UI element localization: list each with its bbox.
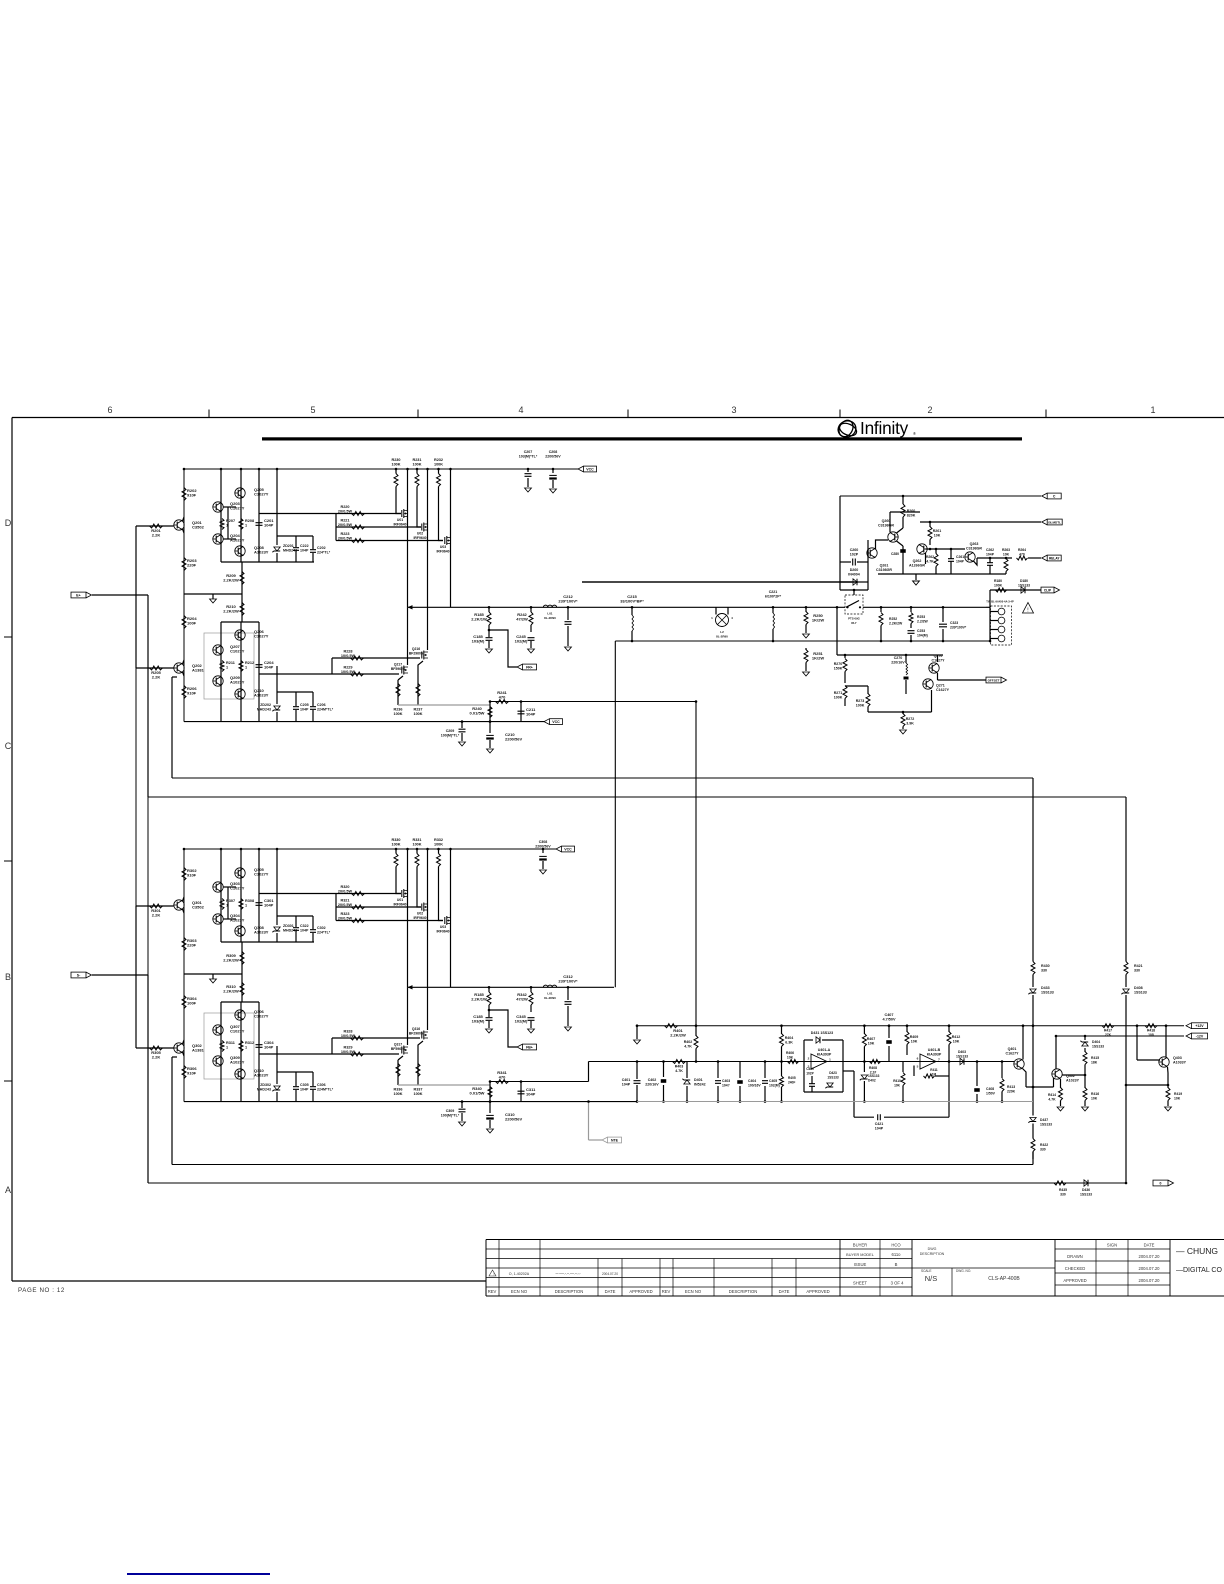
svg-text:R417: R417 <box>1104 1029 1112 1033</box>
wire <box>867 540 869 590</box>
wire <box>241 562 243 622</box>
svg-text:1SS133: 1SS133 <box>956 1055 968 1059</box>
cluster2 gray box <box>204 1013 254 1079</box>
svg-text:MHD243: MHD243 <box>257 1088 271 1092</box>
resistor R185 <box>488 987 490 992</box>
svg-text:224*TL*: 224*TL* <box>317 551 331 555</box>
svg-text:240F: 240F <box>788 1081 795 1085</box>
svg-text:L01: L01 <box>547 611 553 615</box>
resistor R408 <box>870 1060 881 1064</box>
resistor R205 <box>150 666 163 670</box>
transistor Q306 <box>235 1010 245 1020</box>
capacitor C202 <box>310 550 316 553</box>
svg-text:C403: C403 <box>722 1079 730 1083</box>
resistor R307 <box>220 899 224 910</box>
svg-text:R409: R409 <box>910 1035 919 1039</box>
svg-text:A1023Y: A1023Y <box>254 1073 269 1078</box>
svg-text:—DIGITAL CO: —DIGITAL CO <box>1176 1267 1222 1274</box>
svg-text:1: 1 <box>226 904 228 908</box>
svg-text:2.2/2W: 2.2/2W <box>917 620 929 624</box>
svg-text:220/16V: 220/16V <box>645 1083 659 1087</box>
svg-text:APPROVED: APPROVED <box>1063 1278 1086 1283</box>
svg-text:104P: 104P <box>300 708 309 712</box>
svg-text:1: 1 <box>226 524 228 528</box>
svg-text:20/0.5W: 20/0.5W <box>338 890 353 894</box>
svg-text:A: A <box>5 1185 11 1195</box>
svg-text:C407: C407 <box>884 1013 893 1017</box>
svg-text:IRF9640: IRF9640 <box>393 523 406 527</box>
svg-text:IRF9640: IRF9640 <box>413 536 426 540</box>
svg-text:Q271: Q271 <box>936 684 945 688</box>
svg-text:Q262: Q262 <box>913 559 922 563</box>
resistor R311 <box>220 1041 224 1052</box>
svg-text:A1023Y: A1023Y <box>230 918 245 923</box>
wire <box>184 593 242 595</box>
svg-text:R230: R230 <box>391 458 400 462</box>
mosfet Q217 <box>407 607 409 665</box>
connector flag NTE <box>602 1137 608 1143</box>
capacitor C301 <box>256 903 263 906</box>
wire <box>220 622 222 722</box>
svg-text:A1023Y: A1023Y <box>230 538 245 543</box>
svg-text:104P: 104P <box>526 712 536 717</box>
zone tick <box>417 410 419 418</box>
transistor Q402 <box>1052 1069 1062 1079</box>
resistor R212 <box>239 661 243 672</box>
resistor R329 <box>351 1052 364 1056</box>
capacitor C222 <box>293 548 299 551</box>
svg-text:A1381: A1381 <box>192 1048 205 1053</box>
svg-text:100F: 100F <box>187 621 197 626</box>
svg-text:C1027Y: C1027Y <box>254 1014 269 1019</box>
svg-text:R406: R406 <box>786 1051 794 1055</box>
svg-text:C322: C322 <box>300 924 309 928</box>
resistor R253 <box>910 607 912 612</box>
resistor R261 <box>929 522 931 527</box>
svg-text:C1027Y: C1027Y <box>230 886 245 891</box>
wire <box>136 667 174 669</box>
svg-text:T/R BL-9A450-4A-3-4P: T/R BL-9A450-4A-3-4P <box>986 600 1014 604</box>
svg-text:ZD301: ZD301 <box>283 924 294 928</box>
wire supply rail <box>184 468 578 470</box>
zener diode D401 <box>686 1062 688 1079</box>
svg-text:U401-A: U401-A <box>818 1048 831 1052</box>
svg-text:C221: C221 <box>769 590 778 594</box>
transistor Q308 <box>235 926 245 936</box>
resistor R302 <box>182 868 186 881</box>
svg-text:D436: D436 <box>1082 1188 1090 1192</box>
svg-text:6/100*2P*: 6/100*2P* <box>765 595 782 599</box>
svg-text:C421: C421 <box>875 1122 884 1126</box>
svg-text:R418: R418 <box>1147 1029 1155 1033</box>
svg-text:R416: R416 <box>1091 1092 1099 1096</box>
svg-text:C270: C270 <box>894 656 903 660</box>
resistor R211 <box>220 661 224 672</box>
svg-text:10K: 10K <box>1003 553 1010 557</box>
resistor R331 <box>415 854 419 867</box>
wire gate row 1 <box>259 513 401 515</box>
transistor Q203 <box>213 502 223 512</box>
svg-text:R407: R407 <box>867 1037 876 1041</box>
resistor R341 <box>496 1080 509 1084</box>
resistor R203 <box>182 558 186 571</box>
wire <box>863 606 986 608</box>
svg-text:104P: 104P <box>986 553 995 557</box>
svg-text:C1027Y: C1027Y <box>230 1029 245 1034</box>
transistor Q201 <box>174 520 184 530</box>
svg-text:C323: C323 <box>950 621 958 625</box>
svg-text:6.3K: 6.3K <box>785 1041 793 1045</box>
svg-text:C222: C222 <box>300 544 309 548</box>
wire <box>277 915 313 917</box>
resistor R221 <box>352 525 365 529</box>
wire <box>221 561 314 563</box>
capacitor C270 <box>905 655 907 663</box>
wire output rail <box>408 986 615 988</box>
mosfet Q313 <box>402 889 404 898</box>
resistor R250 <box>805 607 807 612</box>
svg-text:1: 1 <box>245 1046 247 1050</box>
wire <box>220 1002 222 1102</box>
svg-text:U03: U03 <box>440 925 446 929</box>
resistor R209 <box>240 572 244 585</box>
svg-text:470: 470 <box>1019 553 1025 557</box>
svg-text:R236: R236 <box>393 708 402 712</box>
resistor R232 <box>437 474 441 487</box>
transistor Q263 <box>965 552 975 562</box>
svg-text:2.2K/2W: 2.2K/2W <box>223 958 239 963</box>
zener diode ZD201 <box>274 547 280 551</box>
svg-text:330: 330 <box>1134 969 1140 973</box>
wire sense bus <box>398 1084 490 1086</box>
wire <box>836 607 838 655</box>
svg-text:Q217: Q217 <box>394 663 402 667</box>
resistor R332 <box>437 854 441 867</box>
svg-text:R408: R408 <box>869 1066 877 1070</box>
wire analog ground bus <box>637 1101 1033 1103</box>
svg-text:R212: R212 <box>245 661 254 665</box>
transistor Q303 <box>213 882 223 892</box>
svg-text:0: 0 <box>1160 1181 1162 1185</box>
svg-text:R307: R307 <box>226 899 235 903</box>
capacitor C405 <box>764 1062 766 1079</box>
svg-text:2004.07.20: 2004.07.20 <box>1139 1266 1161 1271</box>
svg-text:IN4004: IN4004 <box>848 573 860 577</box>
svg-text:1SS133: 1SS133 <box>827 1076 839 1080</box>
wire bus A2 <box>172 1164 1033 1166</box>
zener diode D404 <box>1084 1036 1086 1040</box>
resistor R405 <box>781 1062 783 1077</box>
svg-text:R419: R419 <box>1174 1092 1182 1096</box>
svg-text:C260: C260 <box>850 548 859 552</box>
svg-text:R228: R228 <box>343 650 352 654</box>
svg-text:2.2K: 2.2K <box>152 1055 161 1060</box>
svg-text:B: B <box>895 1262 898 1267</box>
resistor R251 <box>805 648 807 650</box>
wire <box>335 514 337 541</box>
svg-text:R252: R252 <box>889 617 897 621</box>
svg-text:C308: C308 <box>539 840 548 844</box>
resistor R342 <box>530 987 532 992</box>
svg-text:6: 6 <box>107 405 112 415</box>
svg-text:2004.07.20: 2004.07.20 <box>1139 1254 1161 1259</box>
wire <box>295 941 297 943</box>
svg-text:C405: C405 <box>769 1079 777 1083</box>
svg-text:100K: 100K <box>413 712 422 716</box>
wire feedback vertical <box>614 641 616 987</box>
connector flag S- <box>71 972 86 978</box>
wire BLMDTL <box>920 521 1041 523</box>
svg-text:2.2K: 2.2K <box>152 913 161 918</box>
svg-text:1: 1 <box>245 666 247 670</box>
svg-text:104(M): 104(M) <box>917 634 928 638</box>
resistor R229 <box>351 672 364 676</box>
svg-text:U02: U02 <box>417 532 423 536</box>
svg-text:2: 2 <box>927 405 932 415</box>
svg-text:BUYER: BUYER <box>853 1243 867 1248</box>
capacitor C302 <box>310 930 316 933</box>
svg-text:A1023Y: A1023Y <box>254 550 269 555</box>
svg-text:*** *****-*-**-****-**-*-*: *** *****-*-**-****-**-*-* <box>555 1272 580 1276</box>
svg-text:R410: R410 <box>893 1079 901 1083</box>
svg-text:D433: D433 <box>1041 986 1050 990</box>
svg-text:C208: C208 <box>549 450 558 454</box>
diode D180 <box>1021 587 1025 593</box>
zener diode ZD302 <box>274 1086 280 1090</box>
svg-text:R332: R332 <box>434 838 443 842</box>
svg-text:R207: R207 <box>226 519 235 523</box>
resistor R413 <box>1001 1062 1003 1079</box>
resistor R237 <box>417 670 419 705</box>
capacitor C212 <box>567 607 569 620</box>
svg-text:B: B <box>5 972 11 982</box>
svg-text:VCC: VCC <box>586 467 594 471</box>
svg-text:150K: 150K <box>834 667 843 671</box>
capacitor C306 <box>310 1087 316 1090</box>
wire <box>1028 557 1041 559</box>
svg-text:100(M)*TL*: 100(M)*TL* <box>441 734 460 738</box>
svg-text:1: 1 <box>1150 405 1155 415</box>
mosfet Q316 <box>427 987 429 1030</box>
svg-text:SIGN: SIGN <box>1107 1243 1117 1248</box>
svg-text:1SS133: 1SS133 <box>1018 584 1030 588</box>
capacitor C210 <box>489 722 491 733</box>
resistor R310 <box>240 983 244 996</box>
svg-text:C309: C309 <box>446 1109 455 1113</box>
wire supply rail <box>184 848 556 850</box>
svg-text:C3198GR: C3198GR <box>878 524 894 528</box>
svg-text:R232: R232 <box>434 458 443 462</box>
resistor R403 <box>673 1060 686 1064</box>
wire sense vertical <box>695 702 697 1026</box>
svg-text:R435: R435 <box>1059 1188 1067 1192</box>
connector flag RELAY <box>1042 555 1048 561</box>
svg-text:U01: U01 <box>397 898 403 902</box>
svg-text:Q261: Q261 <box>880 564 889 568</box>
svg-text:DWG. NO.: DWG. NO. <box>956 1269 971 1273</box>
resistor R231 <box>415 474 419 487</box>
svg-text:104P: 104P <box>300 929 309 933</box>
svg-text:R311: R311 <box>226 1041 235 1045</box>
svg-text:R231: R231 <box>412 458 421 462</box>
connector flag FB+ <box>517 1044 523 1050</box>
svg-text:C206: C206 <box>317 703 326 707</box>
resistor R417 <box>1102 1024 1114 1028</box>
resistor R236 <box>397 680 399 705</box>
resistor R336 <box>397 1060 399 1085</box>
capacitor C323 <box>942 607 944 622</box>
svg-text:2.2K/2W: 2.2K/2W <box>223 578 239 583</box>
transistor Q210 <box>235 689 245 699</box>
svg-text:10K: 10K <box>934 534 941 538</box>
svg-text:N/S: N/S <box>925 1274 938 1283</box>
svg-text:220K: 220K <box>1007 1090 1016 1094</box>
svg-text:2.2K: 2.2K <box>152 533 161 538</box>
svg-text:10K: 10K <box>911 1040 918 1044</box>
wire relay drive <box>977 557 1012 559</box>
connector flag BLMDTL <box>1042 519 1048 525</box>
zener diode D408 <box>1125 975 1127 988</box>
svg-text:R261: R261 <box>933 529 942 533</box>
svg-text:A1023Y: A1023Y <box>1066 1079 1080 1083</box>
resistor R412 <box>948 1026 950 1032</box>
svg-text:IN5242: IN5242 <box>694 1083 706 1087</box>
svg-text:C402: C402 <box>648 1078 657 1082</box>
resistor R328 <box>351 1036 364 1040</box>
zone tick <box>839 410 841 418</box>
wire offset <box>938 679 987 681</box>
svg-text:Q317: Q317 <box>394 1043 402 1047</box>
svg-text:DRAWN: DRAWN <box>1067 1254 1083 1259</box>
svg-text:47/2W: 47/2W <box>516 997 528 1002</box>
svg-text:104P: 104P <box>300 1088 309 1092</box>
inductor L201 <box>543 605 556 607</box>
resistor R321 <box>352 905 365 909</box>
svg-text:R328: R328 <box>343 1030 352 1034</box>
svg-text:DESCRIPTION: DESCRIPTION <box>729 1289 758 1294</box>
resistor R312 <box>239 1041 243 1052</box>
svg-text:1SS133: 1SS133 <box>1134 991 1147 995</box>
svg-text:ZD202: ZD202 <box>260 703 271 707</box>
svg-text:D408: D408 <box>1134 986 1143 990</box>
svg-text:100K: 100K <box>856 704 865 708</box>
svg-text:PTS-09G: PTS-09G <box>848 617 860 621</box>
svg-text:FB+: FB+ <box>526 1045 533 1049</box>
svg-text:104P: 104P <box>264 1045 274 1050</box>
wire left vertical <box>183 469 185 722</box>
svg-text:224M*TL*: 224M*TL* <box>317 1088 334 1092</box>
resistor R337 <box>417 1050 419 1085</box>
svg-text:1: 1 <box>226 666 228 670</box>
transistor Q206 <box>235 630 245 640</box>
transistor Q271 <box>923 679 933 689</box>
svg-text:470: 470 <box>499 1075 506 1080</box>
transistor Q403 <box>1159 1057 1169 1067</box>
mosfet Q317 <box>407 987 409 1045</box>
transistor Q302 <box>174 1043 184 1053</box>
svg-text:104P: 104P <box>526 1092 536 1097</box>
wire bus B <box>148 796 1126 798</box>
svg-text:C1627Y: C1627Y <box>932 659 946 663</box>
power flag -12V <box>1186 1033 1192 1039</box>
svg-text:ZD302: ZD302 <box>260 1083 271 1087</box>
svg-text:ECN NO: ECN NO <box>511 1289 528 1294</box>
svg-text:1: 1 <box>226 1046 228 1050</box>
wire gate row 5 <box>259 673 399 675</box>
wire <box>1136 1026 1138 1060</box>
svg-text:R208: R208 <box>245 519 254 523</box>
svg-text:910F: 910F <box>187 873 197 878</box>
svg-text:C1027Y: C1027Y <box>254 634 269 639</box>
wire protection bus <box>878 573 1006 575</box>
capacitor C215 <box>631 607 633 615</box>
sheet border frame <box>12 417 1224 419</box>
zener diode D433 <box>1032 975 1034 988</box>
wire <box>220 469 222 562</box>
zone tick <box>1045 410 1047 418</box>
wire output rail <box>408 606 846 608</box>
capacitor C208 <box>552 469 554 473</box>
transistor Q202 <box>174 663 184 673</box>
svg-text:2.2K/2W: 2.2K/2W <box>670 1033 686 1038</box>
wire <box>868 711 932 713</box>
resistor R330 <box>394 854 398 867</box>
wire <box>220 849 222 942</box>
svg-text:20/0.5W: 20/0.5W <box>338 523 353 527</box>
wire channel bottom bus <box>184 1101 637 1103</box>
capacitor C304 <box>256 1045 263 1048</box>
svg-text:DESCRIPTION: DESCRIPTION <box>555 1289 584 1294</box>
connector J1 speaker output <box>991 606 1012 645</box>
svg-text:10/0.5W: 10/0.5W <box>341 1050 356 1054</box>
svg-text:R330: R330 <box>391 838 400 842</box>
svg-text:0.01/5W: 0.01/5W <box>470 1091 485 1096</box>
svg-text:C3502: C3502 <box>192 905 205 910</box>
svg-text:KIA393P: KIA393P <box>927 1053 942 1057</box>
zener diode D402 <box>863 1062 865 1073</box>
diode D436 <box>1084 1180 1088 1186</box>
wire <box>147 595 149 797</box>
svg-text:A1023Y: A1023Y <box>254 930 269 935</box>
resistor R208 <box>239 519 243 530</box>
svg-text:D402: D402 <box>868 1079 876 1083</box>
wire bus A <box>172 777 1033 779</box>
svg-text:3.9K: 3.9K <box>906 722 914 726</box>
svg-text:C409: C409 <box>806 1067 814 1071</box>
svg-text:2.2K: 2.2K <box>152 675 161 680</box>
svg-text:D180: D180 <box>1020 579 1028 583</box>
transistor Q204 <box>213 534 223 544</box>
mosfet Q214 <box>422 523 424 532</box>
svg-text:Q263: Q263 <box>970 542 979 546</box>
svg-text:100K: 100K <box>413 1092 422 1096</box>
svg-text:U01: U01 <box>397 518 403 522</box>
wire <box>221 941 314 943</box>
transistor Q307 <box>213 1025 223 1035</box>
svg-text:4.7K: 4.7K <box>684 1045 692 1049</box>
svg-text:L2: L2 <box>720 630 724 634</box>
op-amp U401B <box>920 1054 936 1069</box>
svg-text:R263: R263 <box>1002 548 1010 552</box>
svg-text:2.2K/1W: 2.2K/1W <box>471 617 487 622</box>
ground <box>210 979 217 983</box>
capacitor C409 <box>809 1084 815 1087</box>
svg-text:2004.07.20: 2004.07.20 <box>1139 1278 1161 1283</box>
svg-text:100K: 100K <box>393 712 402 716</box>
svg-text:OFFSET: OFFSET <box>988 678 1000 682</box>
transistor Q261 <box>867 548 877 558</box>
capacitor C308 <box>542 849 544 853</box>
